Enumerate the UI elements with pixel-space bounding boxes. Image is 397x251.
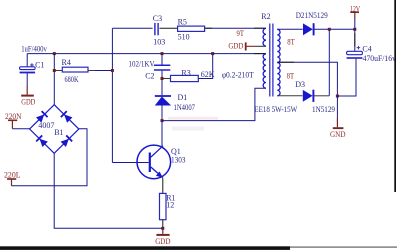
ground GDD bottom bbox=[156, 228, 169, 236]
junction dot R3 left bbox=[161, 77, 164, 80]
wire R4 right bbox=[88, 70, 112, 72]
junction dot rail/C1-bridge bbox=[53, 52, 56, 55]
junction dot R4 right bbox=[111, 69, 114, 72]
bridge rectifier B1 diamond bbox=[30, 105, 79, 154]
junction dot collector node bbox=[161, 119, 164, 122]
wire R3 right to riser bbox=[198, 54, 212, 79]
svg-text:D1: D1 bbox=[178, 93, 188, 102]
terminal 12V bbox=[350, 12, 359, 29]
svg-text:470uF/16v: 470uF/16v bbox=[363, 54, 396, 63]
svg-text:220L: 220L bbox=[4, 171, 21, 180]
wire R3 left stub bbox=[162, 78, 171, 80]
wire stub black R5 right bbox=[205, 27, 212, 29]
wire 220N to bridge left vertex bbox=[12, 128, 29, 130]
diode D1 bbox=[155, 96, 171, 121]
diode D3 bbox=[303, 90, 314, 102]
wire vertical feedback bus x=112.4 bbox=[111, 28, 113, 162]
wire center tap black stub bbox=[277, 61, 294, 63]
svg-text:φ0.2-210T: φ0.2-210T bbox=[222, 70, 254, 79]
svg-text:1uF/400v: 1uF/400v bbox=[21, 45, 47, 54]
junction dot center tap / GND / C4- bbox=[336, 95, 339, 98]
wire R4 left stub bbox=[54, 70, 62, 72]
svg-text:C3: C3 bbox=[153, 14, 162, 23]
wire collector node to primary bottom riser bbox=[162, 88, 266, 120]
wire HV rail y=53.6 bbox=[27, 53, 266, 55]
svg-text:1303: 1303 bbox=[171, 156, 186, 165]
svg-text:510: 510 bbox=[178, 32, 190, 41]
svg-text:EE18 5W-15W: EE18 5W-15W bbox=[254, 105, 297, 114]
wire collector vertical bbox=[161, 121, 163, 146]
port GDD at primary bbox=[245, 42, 266, 50]
border bottom bar thick bbox=[0, 246, 290, 250]
svg-text:R3: R3 bbox=[181, 69, 190, 78]
border right edge bbox=[394, 0, 396, 192]
svg-text:9T: 9T bbox=[237, 29, 245, 38]
wire R5 right to transformer primary top bbox=[205, 27, 266, 29]
svg-text:GDD: GDD bbox=[228, 42, 243, 51]
transformer secondary winding bbox=[277, 29, 280, 95]
label + of C1 bbox=[30, 63, 34, 67]
wire C3 to R5 bbox=[160, 27, 178, 29]
wire Q1 base bbox=[112, 162, 148, 164]
wire 220L to bridge right vertex bbox=[12, 129, 88, 186]
svg-text:GND: GND bbox=[330, 130, 346, 139]
wire stub black into winding (main primary top) bbox=[254, 53, 266, 55]
ground GDD under C1 bbox=[21, 86, 34, 97]
svg-text:8T: 8T bbox=[287, 72, 295, 81]
wire bridge top vertex riser bbox=[53, 54, 55, 105]
svg-text:B1: B1 bbox=[54, 128, 63, 137]
wire secondary center tap bbox=[277, 62, 337, 96]
capacitor C2 bbox=[154, 54, 170, 95]
svg-text:103: 103 bbox=[153, 38, 165, 47]
ground GND bbox=[333, 96, 344, 129]
diode D2 bbox=[303, 23, 314, 35]
wire R4 right stub black bbox=[88, 70, 95, 72]
wire secondary bottom to D3 bbox=[277, 95, 302, 97]
svg-text:C2: C2 bbox=[145, 71, 154, 80]
terminal 220N bbox=[8, 120, 17, 128]
svg-text:D3: D3 bbox=[295, 80, 305, 89]
capacitor C1 bbox=[20, 54, 35, 86]
wire bridge bottom to ground bus bbox=[54, 153, 163, 228]
svg-text:8T: 8T bbox=[287, 38, 295, 47]
svg-text:12: 12 bbox=[166, 201, 174, 210]
svg-text:1N4007: 1N4007 bbox=[174, 103, 196, 112]
transistor Q1 bbox=[137, 145, 171, 179]
wire emitter vertical bbox=[162, 178, 164, 194]
svg-text:R5: R5 bbox=[178, 17, 187, 26]
resistor R5 bbox=[178, 26, 205, 31]
capacitor C4 bbox=[347, 29, 363, 59]
wire D2 to 12V node bbox=[314, 28, 355, 30]
transformer R2 main primary winding bbox=[263, 54, 266, 88]
wire stub black into winding top bbox=[254, 27, 266, 29]
junction dot R1 bottom bbox=[161, 227, 164, 230]
resistor R1 bbox=[160, 193, 167, 219]
junction dot R3 riser top bbox=[211, 52, 214, 55]
svg-text:680K: 680K bbox=[65, 75, 79, 84]
transformer R2 primary 9T winding bbox=[263, 28, 266, 46]
svg-text:C1: C1 bbox=[35, 61, 44, 70]
terminal 220L bbox=[7, 179, 16, 186]
junction dot R4 left bbox=[53, 69, 56, 72]
wire secondary top to D2 bbox=[277, 28, 303, 30]
svg-text:GDD: GDD bbox=[21, 97, 35, 106]
label + of C4 bbox=[357, 46, 361, 50]
border bottom line thin bbox=[290, 246, 397, 247]
watermark smudge 1 bbox=[168, 117, 218, 120]
transformer core bbox=[270, 24, 273, 97]
svg-text:1N5129: 1N5129 bbox=[312, 105, 335, 114]
svg-text:R4: R4 bbox=[62, 58, 71, 67]
svg-text:12V: 12V bbox=[350, 4, 360, 13]
capacitor C3 bbox=[155, 23, 158, 35]
wire D3 to riser bbox=[314, 95, 329, 97]
wire junction to C4 bottom bbox=[337, 59, 356, 96]
wire R1 bottom bbox=[162, 220, 164, 229]
diode bridge top-left bbox=[36, 111, 48, 123]
svg-text:GDD: GDD bbox=[155, 237, 170, 246]
svg-text:D21N5129: D21N5129 bbox=[296, 11, 328, 20]
junction dot 12V/C4 bbox=[353, 28, 356, 31]
diode bridge top-right bbox=[61, 111, 73, 123]
diode bridge bottom-left bbox=[36, 135, 48, 147]
resistor R4 bbox=[62, 67, 88, 72]
watermark smudge 2 bbox=[172, 127, 204, 131]
svg-text:220N: 220N bbox=[5, 112, 22, 121]
resistor R3 bbox=[171, 75, 199, 81]
wire riser D3 output to D2 output bbox=[328, 29, 330, 96]
junction dot C2 top bbox=[161, 52, 164, 55]
diode bridge bottom-right bbox=[60, 135, 72, 147]
svg-text:4007: 4007 bbox=[38, 121, 54, 130]
wire top rail from corner to C3 bbox=[112, 27, 152, 29]
svg-text:R2: R2 bbox=[261, 12, 270, 21]
svg-text:C4: C4 bbox=[362, 44, 371, 53]
junction dot D2/D3 riser bbox=[328, 28, 331, 31]
svg-text:102/1KV: 102/1KV bbox=[129, 60, 155, 69]
